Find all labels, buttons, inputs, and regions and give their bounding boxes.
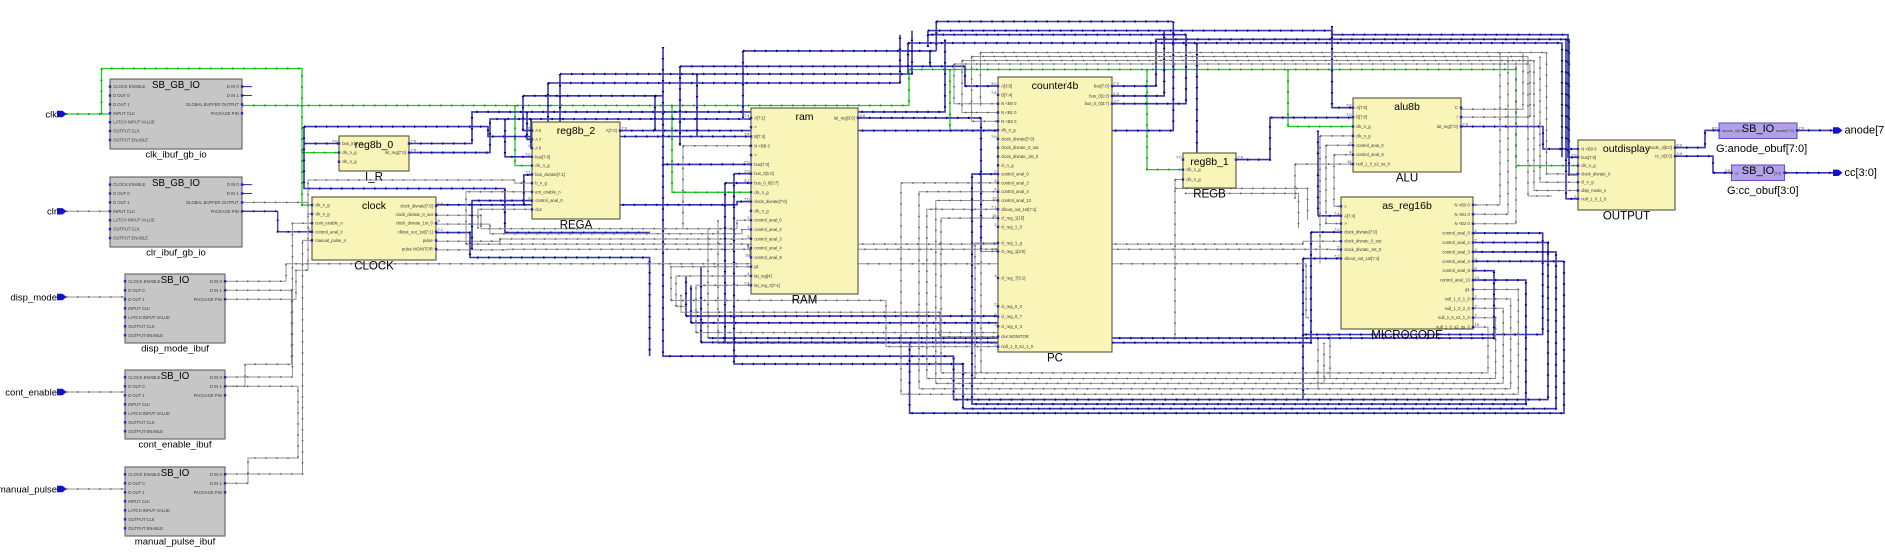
svg-text:15: 15 — [992, 213, 997, 218]
svg-text:clock: clock — [362, 200, 387, 212]
svg-text:7:4: 7:4 — [744, 280, 750, 285]
svg-text:15: 15 — [1347, 159, 1352, 164]
svg-text:control_anal_3: control_anal_3 — [1442, 249, 1470, 254]
svg-text:cl_n_g: cl_n_g — [1001, 163, 1014, 168]
svg-text:null_1_0_s2_1_0: null_1_0_s2_1_0 — [1001, 344, 1034, 349]
svg-text:ram: ram — [795, 111, 813, 123]
svg-text:control_anal_8: control_anal_8 — [1356, 152, 1384, 157]
svg-text:2: 2 — [1475, 313, 1478, 318]
svg-text:alu8b: alu8b — [1394, 101, 1420, 113]
svg-text:7:0: 7:0 — [1334, 227, 1340, 232]
svg-text:SB_GB_IO: SB_GB_IO — [152, 178, 200, 189]
svg-text:D OUT 0: D OUT 0 — [113, 93, 130, 98]
svg-text:pulse: pulse — [423, 238, 434, 243]
svg-text:anode[7:0]: anode[7:0] — [1776, 129, 1794, 133]
svg-text:clk_n_g: clk_n_g — [754, 190, 769, 195]
svg-text:clk_ibuf_gb_io: clk_ibuf_gb_io — [145, 149, 206, 160]
svg-text:control_anal_4: control_anal_4 — [754, 246, 782, 251]
svg-text:7:0: 7:0 — [1114, 81, 1120, 86]
svg-text:clock_divrate_0_out: clock_divrate_0_out — [1001, 145, 1039, 150]
svg-text:7:0: 7:0 — [622, 126, 628, 131]
svg-text:7:0: 7:0 — [332, 139, 338, 144]
svg-text:N <B0 0: N <B0 0 — [1455, 202, 1471, 207]
svg-text:OUTPUT CLK: OUTPUT CLK — [128, 420, 155, 425]
svg-text:OUTPUT ENABLE: OUTPUT ENABLE — [113, 138, 148, 143]
svg-text:LATCH INPUT VALUE: LATCH INPUT VALUE — [113, 120, 155, 125]
svg-text:7:0: 7:0 — [438, 201, 444, 206]
svg-text:A[7:1]: A[7:1] — [754, 115, 765, 120]
svg-text:7:0: 7:0 — [744, 159, 750, 164]
svg-text:cl_n_g: cl_n_g — [1581, 180, 1594, 185]
svg-text:RAM: RAM — [792, 295, 818, 307]
svg-text:clk_n_g: clk_n_g — [1356, 133, 1371, 138]
svg-text:cc[3:0]: cc[3:0] — [1845, 167, 1877, 179]
svg-text:A[7:4]: A[7:4] — [1344, 213, 1355, 218]
svg-text:clk_n_g: clk_n_g — [315, 212, 330, 217]
svg-text:lat_reg[3:0]: lat_reg[3:0] — [834, 115, 855, 120]
svg-text:cl_reg_1[15]: cl_reg_1[15] — [1001, 216, 1024, 221]
svg-text:lat_reg[4]: lat_reg[4] — [754, 274, 771, 279]
svg-text:clk_n_g: clk_n_g — [754, 208, 769, 213]
svg-text:CLOCK ENABLE: CLOCK ENABLE — [128, 375, 160, 380]
svg-text:clk_n_g: clk_n_g — [1581, 163, 1596, 168]
svg-text:clr: clr — [47, 207, 57, 218]
svg-text:g1: g1 — [1465, 287, 1470, 292]
svg-text:cc: cc — [1735, 171, 1739, 175]
svg-text:clkout_out_1st[7:1]: clkout_out_1st[7:1] — [398, 229, 433, 234]
svg-text:anode[7:0]: anode[7:0] — [1845, 125, 1885, 137]
svg-text:reg8b_2: reg8b_2 — [557, 125, 596, 137]
svg-text:G:cc_obuf[3:0]: G:cc_obuf[3:0] — [1727, 185, 1799, 197]
svg-text:null_1_0_s2_1_0: null_1_0_s2_1_0 — [1438, 315, 1471, 320]
svg-text:7:0: 7:0 — [1346, 103, 1352, 108]
svg-text:control_anal_0: control_anal_0 — [315, 229, 343, 234]
svg-text:D IN 0: D IN 0 — [210, 472, 223, 477]
svg-text:D OUT 1: D OUT 1 — [128, 490, 145, 495]
svg-text:OUTPUT ENABLE: OUTPUT ENABLE — [128, 526, 163, 531]
svg-text:6:0: 6:0 — [1712, 125, 1718, 130]
svg-text:D IN 1: D IN 1 — [210, 481, 223, 486]
svg-text:SB_IO: SB_IO — [161, 468, 190, 479]
svg-text:clk_n_g: clk_n_g — [342, 159, 357, 164]
svg-text:clock_divrate[7:0]: clock_divrate[7:0] — [1344, 230, 1377, 235]
svg-text:7:0: 7:0 — [411, 139, 417, 144]
svg-text:INPUT CLK: INPUT CLK — [128, 499, 150, 504]
svg-text:B[7:4]: B[7:4] — [754, 134, 765, 139]
svg-text:7:0: 7:0 — [991, 134, 997, 139]
svg-text:cl_reg_1_g: cl_reg_1_g — [1001, 241, 1022, 246]
svg-text:INPUT CLK: INPUT CLK — [113, 111, 135, 116]
svg-text:LATCH INPUT VALUE: LATCH INPUT VALUE — [128, 411, 170, 416]
svg-text:3:0: 3:0 — [860, 113, 866, 118]
svg-text:clk_n_g: clk_n_g — [1356, 124, 1371, 129]
svg-text:clk_n_g: clk_n_g — [1186, 167, 1201, 172]
svg-text:OUTPUT ENABLE: OUTPUT ENABLE — [113, 236, 148, 241]
svg-text:cl_reg_0_0: cl_reg_0_0 — [1001, 304, 1022, 309]
svg-text:13: 13 — [1475, 275, 1480, 280]
svg-text:3:7: 3:7 — [744, 178, 750, 183]
svg-text:7:4: 7:4 — [991, 90, 997, 95]
svg-text:CLOCK ENABLE: CLOCK ENABLE — [128, 472, 160, 477]
svg-text:1:0: 1:0 — [744, 169, 750, 174]
svg-text:7:0: 7:0 — [1799, 125, 1805, 130]
svg-text:D IN 1: D IN 1 — [227, 93, 240, 98]
svg-text:bus_divrate[7:1]: bus_divrate[7:1] — [535, 172, 565, 177]
svg-text:7:4: 7:4 — [744, 132, 750, 137]
svg-text:7:0: 7:0 — [525, 152, 531, 157]
svg-text:INPUT CLK: INPUT CLK — [128, 402, 150, 407]
svg-text:B[7:0]: B[7:0] — [1356, 115, 1367, 120]
svg-text:D IN 1: D IN 1 — [210, 288, 223, 293]
svg-text:D IN 0: D IN 0 — [227, 182, 240, 187]
svg-text:7:1: 7:1 — [1334, 254, 1340, 259]
svg-text:as_reg16b: as_reg16b — [1382, 200, 1432, 212]
svg-text:pulse MONITOR: pulse MONITOR — [402, 247, 433, 252]
svg-text:7:0: 7:0 — [1346, 112, 1352, 117]
svg-text:b_n_g: b_n_g — [535, 181, 547, 186]
svg-text:SB_IO: SB_IO — [161, 275, 190, 286]
svg-text:control_anal_3: control_anal_3 — [1001, 180, 1029, 185]
svg-text:control_anal_0: control_anal_0 — [1001, 172, 1029, 177]
svg-text:REGB: REGB — [1193, 189, 1226, 201]
svg-text:control_anal_13: control_anal_13 — [1440, 278, 1470, 283]
svg-text:clock_divrate_1st_0: clock_divrate_1st_0 — [1344, 247, 1382, 252]
svg-text:SB_IO: SB_IO — [1742, 123, 1775, 135]
svg-text:disp_mode_ibuf: disp_mode_ibuf — [141, 343, 209, 354]
svg-text:bus[7:0]: bus[7:0] — [1581, 155, 1596, 160]
svg-text:null_1_0_s2_ss_0: null_1_0_s2_ss_0 — [1356, 162, 1390, 167]
svg-text:G:anode_obuf[7:0]: G:anode_obuf[7:0] — [1716, 143, 1807, 155]
svg-text:15: 15 — [1475, 322, 1480, 327]
svg-text:clkout_out_1st[7:1]: clkout_out_1st[7:1] — [1001, 207, 1036, 212]
svg-text:D IN 0: D IN 0 — [210, 375, 223, 380]
svg-text:N <BB 0: N <BB 0 — [754, 143, 770, 148]
svg-text:control_anal_4: control_anal_4 — [1001, 189, 1029, 194]
svg-text:N <B2 0: N <B2 0 — [1455, 221, 1471, 226]
svg-text:PC: PC — [1047, 353, 1063, 365]
svg-text:clock_divrate_0: clock_divrate_0 — [1581, 171, 1611, 176]
svg-text:disp_mode_n: disp_mode_n — [1581, 188, 1607, 193]
svg-text:clock_divrate_0_out: clock_divrate_0_out — [1344, 239, 1382, 244]
svg-text:bus[7:0]: bus[7:0] — [1094, 84, 1109, 89]
svg-text:clock_divrate[7:0]: clock_divrate[7:0] — [400, 204, 433, 209]
svg-text:control_anal_9: control_anal_9 — [754, 255, 782, 260]
svg-text:3:0: 3:0 — [991, 81, 997, 86]
svg-text:counter4b: counter4b — [1032, 80, 1079, 92]
svg-text:manual_pulse: manual_pulse — [0, 484, 57, 495]
svg-text:7:1: 7:1 — [525, 169, 531, 174]
svg-text:OUTPUT ENABLE: OUTPUT ENABLE — [128, 429, 163, 434]
svg-text:manual_pulse_ibuf: manual_pulse_ibuf — [135, 536, 216, 547]
svg-text:null_1_0_1_0: null_1_0_1_0 — [1445, 296, 1471, 301]
svg-text:SB_GB_IO: SB_GB_IO — [152, 80, 200, 91]
svg-text:control_anal_0: control_anal_0 — [754, 218, 782, 223]
svg-text:D OUT 1: D OUT 1 — [113, 200, 130, 205]
svg-text:cl_reg_1[3:0]: cl_reg_1[3:0] — [1001, 249, 1025, 254]
svg-text:LATCH INPUT VALUE: LATCH INPUT VALUE — [128, 508, 170, 513]
svg-text:3:7: 3:7 — [1114, 99, 1120, 104]
svg-text:CLOCK ENABLE: CLOCK ENABLE — [113, 182, 145, 187]
svg-text:2: 2 — [1475, 303, 1478, 308]
svg-text:N <B0 0: N <B0 0 — [1581, 147, 1597, 152]
svg-text:19: 19 — [745, 252, 750, 257]
svg-text:anode_o[6:0]: anode_o[6:0] — [1647, 145, 1671, 150]
svg-text:INPUT CLK: INPUT CLK — [128, 306, 150, 311]
svg-text:bus[7:0]: bus[7:0] — [535, 154, 550, 159]
svg-text:control_anal_0: control_anal_0 — [1356, 143, 1384, 148]
svg-text:clr_ibuf_gb_io: clr_ibuf_gb_io — [146, 247, 206, 258]
svg-text:lat_reg[7:0]: lat_reg[7:0] — [1437, 124, 1458, 129]
svg-text:8: 8 — [438, 218, 441, 223]
svg-text:ent_enable_n: ent_enable_n — [535, 189, 561, 194]
svg-text:bus_0_0[3:7]: bus_0_0[3:7] — [754, 181, 778, 186]
svg-text:clk_n_g: clk_n_g — [535, 163, 550, 168]
svg-text:13: 13 — [992, 196, 997, 201]
svg-text:INPUT CLK: INPUT CLK — [113, 209, 135, 214]
svg-text:cl_reg_?[3:1]: cl_reg_?[3:1] — [1001, 276, 1025, 281]
svg-text:A 8: A 8 — [535, 146, 542, 151]
svg-text:PACKAGE PIN: PACKAGE PIN — [194, 297, 222, 302]
svg-text:disp_mode: disp_mode — [11, 292, 57, 303]
svg-text:D IN 0: D IN 0 — [210, 279, 223, 284]
svg-text:control_anal_2: control_anal_2 — [1442, 240, 1470, 245]
svg-text:7:4: 7:4 — [1334, 211, 1340, 216]
svg-text:7:0: 7:0 — [1463, 122, 1469, 127]
svg-text:cl_reg_0_?: cl_reg_0_? — [1001, 314, 1022, 319]
svg-text:clock_divrate[7:0]: clock_divrate[7:0] — [754, 199, 787, 204]
svg-text:[3:0]: [3:0] — [1774, 171, 1781, 175]
svg-text:clk: clk — [45, 109, 57, 120]
svg-text:null_1_0_2_0: null_1_0_2_0 — [1445, 306, 1471, 311]
svg-text:clur MONITOR: clur MONITOR — [1001, 334, 1029, 339]
svg-text:GLOBAL BUFFER OUTPUT: GLOBAL BUFFER OUTPUT — [186, 102, 239, 107]
svg-text:clk_n_g: clk_n_g — [342, 150, 357, 155]
svg-text:g1: g1 — [754, 264, 759, 269]
svg-text:outdisplay: outdisplay — [1603, 143, 1651, 155]
svg-text:LATCH INPUT VALUE: LATCH INPUT VALUE — [128, 315, 170, 320]
svg-text:D IN 1: D IN 1 — [227, 191, 240, 196]
svg-text:int_reg[7:0]: int_reg[7:0] — [385, 150, 406, 155]
svg-text:7:0: 7:0 — [411, 148, 417, 153]
svg-text:I_R: I_R — [365, 172, 383, 184]
svg-text:control_anal_8: control_anal_8 — [1442, 268, 1470, 273]
svg-text:7:1: 7:1 — [438, 227, 444, 232]
svg-text:clock_divrate_1st_0: clock_divrate_1st_0 — [396, 221, 434, 226]
svg-text:D OUT 0: D OUT 0 — [113, 191, 130, 196]
svg-text:SB_IO: SB_IO — [1742, 165, 1775, 177]
svg-text:3:0: 3:0 — [1677, 151, 1683, 156]
svg-text:LATCH INPUT VALUE: LATCH INPUT VALUE — [113, 218, 155, 223]
svg-text:7:1: 7:1 — [991, 204, 997, 209]
svg-text:ALU: ALU — [1396, 173, 1418, 185]
svg-text:CLOCK ENABLE: CLOCK ENABLE — [128, 279, 160, 284]
svg-text:A 7: A 7 — [535, 137, 542, 142]
svg-text:OUTPUT CLK: OUTPUT CLK — [128, 324, 155, 329]
svg-text:bus[7:0]: bus[7:0] — [754, 162, 769, 167]
svg-text:clkout_out_1st[7:1]: clkout_out_1st[7:1] — [1344, 256, 1379, 261]
svg-text:OUTPUT: OUTPUT — [1603, 211, 1650, 223]
svg-text:D OUT 0: D OUT 0 — [128, 481, 145, 486]
svg-text:N <B2 0: N <B2 0 — [1001, 119, 1017, 124]
svg-text:null_1_0_1_0: null_1_0_1_0 — [1581, 196, 1607, 201]
svg-text:D OUT 1: D OUT 1 — [128, 393, 145, 398]
svg-text:N <B0 0: N <B0 0 — [1001, 101, 1017, 106]
svg-text:clock_divrate_0_out: clock_divrate_0_out — [396, 212, 434, 217]
svg-text:PACKAGE PIN: PACKAGE PIN — [194, 490, 222, 495]
svg-text:6:0: 6:0 — [1677, 143, 1683, 148]
svg-text:1:0: 1:0 — [1114, 91, 1120, 96]
svg-text:manual_pulse_n: manual_pulse_n — [315, 238, 346, 243]
svg-text:CLOCK: CLOCK — [354, 261, 394, 273]
svg-text:GLOBAL BUFFER OUTPUT: GLOBAL BUFFER OUTPUT — [186, 200, 239, 205]
svg-text:7:4: 7:4 — [744, 113, 750, 118]
svg-text:N <B1 0: N <B1 0 — [1001, 110, 1017, 115]
svg-text:cc_o[3:0]: cc_o[3:0] — [1655, 154, 1672, 159]
svg-text:control_anal_0: control_anal_0 — [1442, 231, 1470, 236]
svg-text:control_anal_2: control_anal_2 — [754, 227, 782, 232]
svg-text:7:0: 7:0 — [1571, 152, 1577, 157]
svg-text:2: 2 — [1475, 294, 1478, 299]
svg-text:bus_0_0[3:7]: bus_0_0[3:7] — [1085, 101, 1109, 106]
svg-text:clk_n_g: clk_n_g — [1186, 177, 1201, 182]
svg-text:PACKAGE PIN: PACKAGE PIN — [211, 209, 239, 214]
svg-text:CLOCK ENABLE: CLOCK ENABLE — [113, 84, 145, 89]
svg-text:cl_reg_1_0: cl_reg_1_0 — [1001, 224, 1022, 229]
svg-text:clock_divrate_1st_0: clock_divrate_1st_0 — [1001, 154, 1039, 159]
svg-text:OUTPUT CLK: OUTPUT CLK — [113, 227, 140, 232]
svg-text:D OUT 1: D OUT 1 — [128, 297, 145, 302]
svg-text:cont_enable: cont_enable — [5, 387, 57, 398]
svg-text:bus_in[7:0]: bus_in[7:0] — [342, 141, 363, 146]
svg-text:A[7:0]: A[7:0] — [606, 128, 617, 133]
svg-text:A[7:0]: A[7:0] — [1356, 105, 1367, 110]
svg-text:OUTPUT CLK: OUTPUT CLK — [113, 129, 140, 134]
svg-text:7:0: 7:0 — [744, 197, 750, 202]
svg-text:cl_reg_0_3: cl_reg_0_3 — [1001, 324, 1022, 329]
svg-text:clk_n_g: clk_n_g — [1001, 128, 1016, 133]
svg-text:A 0: A 0 — [535, 128, 542, 133]
svg-text:D OUT 0: D OUT 0 — [128, 288, 145, 293]
svg-text:null_1_0_s2_ss_0: null_1_0_s2_ss_0 — [1436, 325, 1470, 330]
svg-text:clur: clur — [535, 207, 542, 212]
svg-text:bus_0[1:0]: bus_0[1:0] — [754, 171, 774, 176]
svg-text:cont_enable_ibuf: cont_enable_ibuf — [138, 439, 211, 450]
svg-text:D IN 1: D IN 1 — [210, 384, 223, 389]
svg-text:7:0: 7:0 — [1176, 155, 1182, 160]
svg-text:REGA: REGA — [560, 220, 593, 232]
svg-text:anode_o[6:0]: anode_o[6:0] — [1722, 129, 1744, 133]
svg-text:SB_IO: SB_IO — [161, 371, 190, 382]
svg-text:bus_0[1:0]: bus_0[1:0] — [1089, 93, 1109, 98]
svg-text:cont_enable_n: cont_enable_n — [315, 221, 343, 226]
svg-text:OUTPUT ENABLE: OUTPUT ENABLE — [128, 333, 163, 338]
svg-text:PACKAGE PIN: PACKAGE PIN — [211, 111, 239, 116]
svg-text:A[3:0]: A[3:0] — [1001, 84, 1012, 89]
svg-text:3:0: 3:0 — [991, 247, 997, 252]
svg-text:control_anal_3: control_anal_3 — [754, 236, 782, 241]
svg-text:MICROCODE: MICROCODE — [1371, 330, 1443, 342]
svg-text:N <B1 0: N <B1 0 — [1455, 212, 1471, 217]
svg-text:3:0: 3:0 — [1724, 168, 1730, 173]
svg-text:D OUT 1: D OUT 1 — [113, 102, 130, 107]
svg-text:PACKAGE PIN: PACKAGE PIN — [194, 393, 222, 398]
svg-text:OUTPUT CLK: OUTPUT CLK — [128, 517, 155, 522]
svg-text:C: C — [1455, 105, 1458, 110]
svg-text:7:0: 7:0 — [1238, 155, 1244, 160]
svg-text:B[7:4]: B[7:4] — [1001, 92, 1012, 97]
svg-text:control_anal_4: control_anal_4 — [1442, 259, 1470, 264]
svg-text:D OUT 0: D OUT 0 — [128, 384, 145, 389]
svg-text:clock_divrate[7:0]: clock_divrate[7:0] — [1001, 136, 1034, 141]
svg-text:D IN 0: D IN 0 — [227, 84, 240, 89]
svg-text:control_anal_13: control_anal_13 — [1001, 198, 1031, 203]
svg-text:control_anal_0: control_anal_0 — [535, 198, 563, 203]
svg-text:clk_n_g: clk_n_g — [315, 203, 330, 208]
svg-text:lat_reg_0[7:4]: lat_reg_0[7:4] — [754, 283, 780, 288]
